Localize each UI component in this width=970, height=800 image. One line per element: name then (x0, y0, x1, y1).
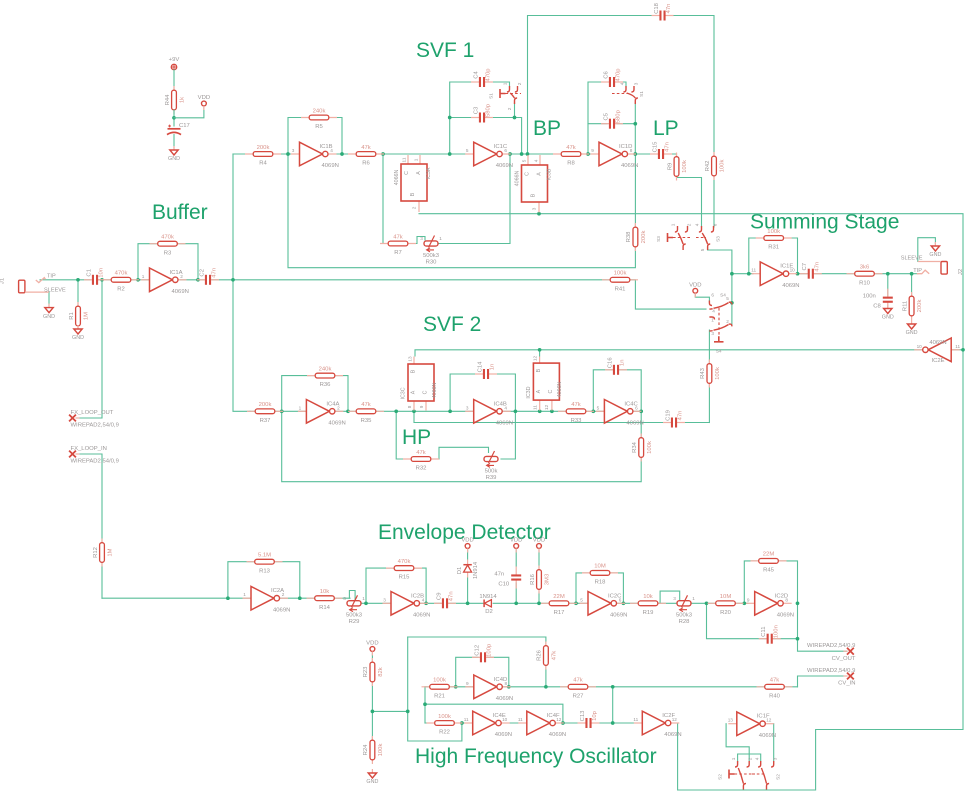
power symbol VDD main (202, 101, 207, 106)
svg-text:R21: R21 (434, 693, 445, 699)
svg-text:R10: R10 (859, 280, 871, 286)
resistor R24 (371, 736, 373, 764)
svg-text:100k: 100k (767, 229, 780, 235)
svg-text:IC3C: IC3C (400, 387, 406, 399)
svg-text:47k: 47k (361, 145, 371, 151)
svg-text:100k: 100k (433, 678, 446, 684)
svg-text:1: 1 (299, 405, 302, 410)
wire IC1A output to C2 (180, 279, 204, 281)
svg-text:3: 3 (773, 757, 778, 760)
svg-text:4: 4 (695, 223, 700, 226)
svg-text:1N914: 1N914 (473, 561, 479, 579)
wire C16 feedback (593, 370, 612, 412)
svg-text:R18: R18 (595, 580, 607, 586)
svg-text:8: 8 (504, 681, 507, 686)
svg-text:VDD: VDD (366, 641, 378, 647)
wire R23 R24 bias node (371, 681, 373, 741)
svg-text:R3: R3 (164, 250, 172, 256)
svg-text:C: C (548, 390, 554, 394)
svg-text:C5: C5 (603, 112, 609, 120)
inverter IC2D (746, 602, 755, 604)
svg-text:3: 3 (634, 82, 639, 85)
svg-text:47k: 47k (566, 145, 576, 151)
svg-text:4069N: 4069N (172, 289, 189, 295)
node VDD junction dot (172, 116, 176, 120)
wire IC1E output rail to J2 (796, 273, 918, 275)
ground at J2 sleeve (934, 242, 936, 246)
svg-text:B: B (410, 192, 416, 196)
svg-text:R9: R9 (667, 163, 673, 171)
svg-text:3: 3 (343, 596, 346, 601)
inverter IC2C (580, 602, 589, 604)
svg-text:R7: R7 (394, 250, 402, 256)
svg-text:47k: 47k (393, 234, 403, 240)
svg-text:2: 2 (517, 82, 522, 85)
+9V supply symbol (171, 64, 176, 69)
wire C5 right (617, 123, 635, 125)
capacitor C3 (479, 112, 486, 123)
svg-text:4069N: 4069N (777, 613, 794, 619)
svg-text:R43: R43 (700, 367, 706, 379)
svg-text:A: A (536, 172, 542, 176)
ground below C8 (887, 305, 889, 309)
wire R3 feedback loop (138, 244, 198, 280)
wire node ALL vertical to SVF1 (232, 154, 234, 280)
resistor R10 (847, 273, 883, 275)
svg-text:6: 6 (504, 148, 507, 153)
wire C1 to R2 with FX loop tap (96, 279, 114, 281)
svg-text:1: 1 (503, 82, 508, 85)
svg-text:4069N: 4069N (495, 732, 512, 738)
wire S3 common to summing node (708, 247, 732, 325)
svg-text:1: 1 (439, 236, 442, 241)
svg-text:C16: C16 (607, 357, 613, 369)
svg-text:C14: C14 (477, 361, 483, 373)
svg-text:R14: R14 (319, 605, 331, 611)
svg-text:500k3: 500k3 (346, 613, 363, 619)
wire R9 branch from C15 (676, 154, 678, 158)
resistor R42 (713, 152, 715, 180)
wire R7 branch from R6 output (383, 154, 389, 244)
svg-text:R26: R26 (537, 649, 543, 661)
svg-text:5.1M: 5.1M (258, 553, 271, 559)
svg-text:IC3D: IC3D (526, 386, 532, 398)
resistor R33 (558, 410, 594, 412)
wire envelope rail (362, 602, 748, 604)
svg-text:6: 6 (713, 223, 718, 226)
inverter IC1D (591, 153, 600, 155)
svg-text:C6: C6 (603, 71, 609, 79)
svg-text:11: 11 (518, 717, 523, 722)
wire C3 left (450, 117, 477, 119)
wire C4 right to switch S1a (487, 82, 510, 87)
wire IC1F input from S2 (726, 724, 749, 761)
wire R44 to C17 node (173, 110, 175, 126)
power symbol VDD at R23 (370, 647, 375, 652)
svg-text:9: 9 (591, 148, 594, 153)
wire bias vertical (408, 637, 462, 741)
wire C18 loop from IC1C output (528, 16, 658, 155)
wire R16 branch to VDD (538, 592, 540, 603)
connector J1 input jack (19, 280, 25, 293)
inverter IC4C (596, 410, 605, 412)
svg-text:B: B (411, 369, 417, 373)
resistor R19 (630, 602, 666, 604)
resistor R40 (757, 686, 793, 688)
svg-text:3k6: 3k6 (860, 265, 870, 271)
svg-text:C3: C3 (473, 106, 479, 114)
svg-text:GND: GND (882, 315, 894, 321)
inverter IC1C (465, 153, 474, 155)
wire C14 right (491, 374, 515, 411)
trimmer R29 (347, 601, 361, 606)
svg-text:R35: R35 (361, 418, 373, 424)
svg-text:R44: R44 (165, 94, 171, 106)
wire C11 loop (707, 603, 798, 638)
resistor R34 (640, 434, 642, 462)
svg-text:9: 9 (466, 681, 469, 686)
wire R31 feedback (749, 238, 798, 274)
svg-text:R45: R45 (763, 568, 775, 574)
svg-text:10M: 10M (720, 594, 732, 600)
capacitor C12 (480, 652, 487, 663)
wire R32 to R39 wiper jog (430, 447, 489, 459)
svg-text:4: 4 (755, 757, 760, 760)
svg-text:R20: R20 (720, 610, 732, 616)
switch S2 section A (735, 761, 738, 767)
svg-text:J1: J1 (0, 278, 6, 284)
svg-text:6: 6 (635, 405, 638, 410)
resistor R45 (751, 560, 787, 562)
svg-text:SVF 1: SVF 1 (416, 39, 474, 62)
svg-text:100k: 100k (378, 744, 384, 757)
svg-text:470k: 470k (115, 271, 128, 277)
wire R1 branch (77, 280, 79, 307)
wire R13 feedback loop (228, 562, 300, 599)
wire R15 feedback loop (366, 568, 426, 603)
resistor R18 (582, 572, 618, 574)
resistor R35 (348, 410, 384, 412)
wire J1 sleeve to ground (48, 292, 50, 306)
power symbol VDD at S4 (693, 288, 698, 293)
svg-text:C11: C11 (761, 627, 767, 637)
svg-text:FX_LOOP_OUT: FX_LOOP_OUT (71, 410, 114, 416)
resistor R9 (676, 153, 678, 181)
ground below R24 (371, 769, 373, 773)
svg-text:5: 5 (580, 597, 583, 602)
svg-text:11: 11 (633, 717, 638, 722)
svg-text:B: B (536, 368, 542, 372)
capacitor C13 (585, 718, 592, 729)
svg-text:2: 2 (180, 274, 183, 279)
inverter IC4A (298, 410, 307, 412)
svg-text:500k: 500k (485, 468, 498, 474)
svg-text:3: 3 (711, 331, 714, 336)
capacitor C16 (613, 364, 620, 375)
svg-text:S3: S3 (656, 236, 661, 242)
wire J1 tip to C1 (40, 279, 90, 281)
switch S3 section A spare (675, 226, 678, 232)
svg-text:C10: C10 (498, 582, 510, 588)
svg-text:C7: C7 (802, 263, 808, 271)
svg-text:500k3: 500k3 (423, 253, 440, 259)
svg-text:1: 1 (731, 757, 736, 760)
svg-text:12: 12 (544, 405, 549, 411)
wire R45 feedback and CV_OUT (744, 561, 847, 651)
svg-text:IC3A: IC3A (426, 167, 432, 179)
svg-text:R13: R13 (259, 568, 271, 574)
svg-text:11: 11 (533, 405, 538, 410)
resistor R1 (77, 302, 79, 330)
resistor R3 (150, 243, 186, 245)
svg-text:R2: R2 (117, 286, 125, 292)
wire IC1F output to S2 (773, 724, 775, 761)
svg-text:4: 4 (534, 159, 539, 162)
resistor R17 (541, 602, 577, 604)
svg-text:470k: 470k (398, 559, 411, 565)
wire S4 lower to R43 (708, 330, 710, 363)
wire FX_LOOP_OUT branch (76, 280, 102, 418)
svg-text:R29: R29 (349, 619, 360, 625)
svg-text:10M: 10M (594, 564, 606, 570)
svg-text:Buffer: Buffer (152, 201, 208, 224)
inverter IC1A (141, 279, 150, 281)
svg-text:4: 4 (330, 148, 333, 153)
svg-text:TIP: TIP (47, 274, 56, 280)
connector J2 output jack (941, 262, 947, 275)
wire SVF2 main rail (250, 410, 641, 412)
wire R7 to R30 wiper jog (407, 237, 425, 244)
svg-text:4066N: 4066N (394, 170, 400, 186)
svg-text:12: 12 (556, 717, 562, 722)
svg-text:1N914: 1N914 (479, 594, 497, 600)
svg-text:R32: R32 (416, 466, 427, 472)
svg-text:C17: C17 (179, 123, 190, 129)
svg-text:47n: 47n (666, 4, 672, 14)
svg-text:S1: S1 (489, 93, 494, 99)
svg-text:240k: 240k (319, 366, 332, 372)
capacitor C17 polarized (168, 128, 181, 130)
wire R2 to IC1A input (130, 279, 158, 281)
wire C2 to filter input node (212, 279, 233, 281)
wire 4066 control line from IC2E (415, 350, 923, 356)
svg-text:1n: 1n (620, 360, 626, 367)
svg-text:9: 9 (747, 597, 750, 602)
svg-text:TIP: TIP (913, 268, 922, 274)
svg-text:J2: J2 (958, 269, 964, 275)
svg-text:GND: GND (366, 779, 378, 785)
wire C10 top (515, 549, 517, 566)
svg-text:1: 1 (414, 158, 419, 161)
svg-text:R4: R4 (259, 161, 267, 167)
svg-text:200k: 200k (259, 402, 272, 408)
svg-text:GND: GND (168, 156, 180, 162)
svg-text:CV_OUT: CV_OUT (832, 656, 856, 662)
capacitor C11 (766, 633, 773, 644)
svg-text:IC3B: IC3B (547, 168, 553, 180)
svg-text:4: 4 (712, 309, 715, 314)
svg-text:C: C (423, 390, 429, 394)
svg-text:C: C (524, 172, 530, 176)
svg-text:8: 8 (785, 597, 788, 602)
resistor R20 (708, 602, 744, 604)
analog switch IC3D (539, 357, 541, 364)
svg-text:GND: GND (43, 314, 55, 320)
svg-text:C: C (404, 171, 410, 175)
svg-text:4069N: 4069N (496, 696, 513, 702)
capacitor C9 (442, 598, 449, 609)
svg-text:C19: C19 (665, 410, 671, 421)
svg-text:A: A (416, 171, 422, 175)
wire VDD to S4 (695, 294, 709, 302)
capacitor C8 (882, 296, 893, 303)
wire VDD to R23 (371, 652, 373, 663)
svg-text:100k: 100k (715, 367, 721, 380)
svg-text:C18: C18 (654, 2, 660, 14)
svg-text:C8: C8 (873, 304, 881, 310)
svg-text:VDD: VDD (510, 538, 522, 544)
svg-text:5: 5 (700, 248, 705, 251)
svg-text:1: 1 (711, 318, 714, 323)
capacitor C2 (205, 274, 212, 285)
svg-text:12: 12 (766, 718, 772, 723)
svg-text:100k: 100k (720, 160, 726, 173)
svg-text:R39: R39 (486, 475, 497, 481)
svg-text:1M: 1M (84, 312, 90, 320)
svg-text:C9: C9 (436, 593, 442, 601)
resistor R21 (422, 686, 458, 688)
svg-text:WIREPAD2,54/0,9: WIREPAD2,54/0,9 (71, 459, 119, 465)
wire C6 to switch S1b (617, 82, 626, 87)
inverter IC4D (465, 686, 474, 688)
svg-text:47k: 47k (552, 651, 558, 661)
svg-text:1M: 1M (108, 548, 114, 556)
svg-text:5: 5 (726, 296, 729, 301)
wire HFO feedback line (425, 704, 563, 723)
wire R19 to R28 wiper jog (660, 591, 680, 603)
svg-text:R28: R28 (679, 619, 691, 625)
wire C4 C3 left leg (450, 82, 477, 154)
wire R34 return loop (282, 411, 642, 481)
capacitor C7 (807, 268, 814, 279)
wire VDD branch (174, 107, 204, 118)
wire R26 bottom (545, 663, 547, 687)
ground below R11 (911, 320, 913, 324)
svg-text:4069N: 4069N (496, 163, 513, 169)
svg-text:R33: R33 (571, 418, 583, 424)
trimmer R28 (677, 601, 691, 606)
svg-text:R15: R15 (399, 575, 411, 581)
svg-text:VDD: VDD (198, 95, 210, 101)
wire C14 branch (450, 374, 481, 411)
svg-text:11: 11 (751, 268, 756, 273)
svg-text:4069N: 4069N (929, 340, 946, 346)
wire R14 to R29 wiper jog (349, 591, 355, 601)
capacitor C1 (92, 274, 99, 285)
svg-text:WIREPAD2,54/0,9: WIREPAD2,54/0,9 (71, 423, 119, 429)
power symbol VDD at D1 (465, 544, 470, 549)
svg-text:11: 11 (955, 344, 960, 349)
svg-text:R6: R6 (362, 161, 370, 167)
svg-text:4069N: 4069N (782, 283, 799, 289)
svg-text:A: A (411, 390, 417, 394)
svg-text:1: 1 (142, 274, 145, 279)
resistor R23 (371, 658, 373, 686)
svg-text:3: 3 (420, 236, 423, 241)
svg-text:R17: R17 (554, 610, 565, 616)
svg-text:200k: 200k (257, 145, 270, 151)
wire R12 to IC2A input rail (102, 597, 350, 599)
switch S1 section B (623, 86, 626, 92)
svg-text:S1: S1 (639, 91, 644, 97)
svg-text:4069N: 4069N (610, 613, 627, 619)
svg-text:9: 9 (419, 405, 424, 408)
svg-text:R16: R16 (530, 573, 536, 585)
resistor R2 (103, 279, 139, 281)
svg-text:47n: 47n (449, 591, 455, 601)
svg-text:C12: C12 (474, 645, 480, 656)
svg-text:100n: 100n (773, 625, 779, 638)
resistor R36 (307, 375, 343, 377)
analog switch IC3A (407, 155, 409, 164)
capacitor C19 (671, 417, 678, 428)
wire C12 right leg (488, 657, 509, 687)
svg-text:R38: R38 (626, 231, 632, 243)
svg-text:D2: D2 (485, 609, 493, 615)
svg-text:2: 2 (412, 206, 417, 209)
wire R41 input line (233, 280, 706, 309)
capacitor C5 (609, 118, 616, 129)
svg-text:3M3: 3M3 (545, 573, 551, 585)
resistor R26 (545, 642, 547, 670)
wire C12 loop (456, 657, 478, 687)
svg-text:8: 8 (407, 405, 412, 408)
svg-text:10p: 10p (592, 710, 598, 721)
svg-text:3: 3 (532, 207, 537, 210)
svg-text:100k: 100k (438, 714, 451, 720)
switch S4 section B (709, 317, 714, 320)
inverter IC1E (752, 273, 761, 275)
resistor R32 (403, 458, 439, 460)
svg-text:4: 4 (620, 82, 625, 85)
diode D1 (467, 560, 469, 578)
wire HFO lower rail (425, 722, 678, 724)
wire R39 to IC4B output (501, 411, 515, 459)
wire R11 branch (911, 274, 913, 296)
svg-text:4: 4 (504, 405, 507, 410)
inverter IC2E (951, 349, 960, 351)
wire S1b common to C5 (634, 103, 636, 154)
trimmer R39 (484, 456, 498, 461)
resistor R16 (538, 566, 540, 594)
power symbol VDD at R16 (537, 544, 542, 549)
svg-text:C4: C4 (473, 71, 479, 79)
svg-text:22M: 22M (553, 594, 565, 600)
resistor R5 (301, 117, 337, 119)
wire C18 right to R42 (668, 16, 714, 158)
resistor R8 (553, 153, 589, 155)
svg-text:C1: C1 (86, 269, 92, 277)
svg-text:R34: R34 (632, 441, 638, 453)
wire C10 branch to VDD (515, 583, 517, 603)
wire R9 bottom to S3 left (677, 175, 702, 227)
capacitor C18 (659, 10, 666, 21)
ground below C17 (173, 146, 175, 150)
svg-text:47n: 47n (212, 268, 218, 278)
svg-text:5: 5 (522, 159, 527, 162)
junction dots (76, 278, 80, 282)
capacitor C15 (658, 149, 665, 160)
